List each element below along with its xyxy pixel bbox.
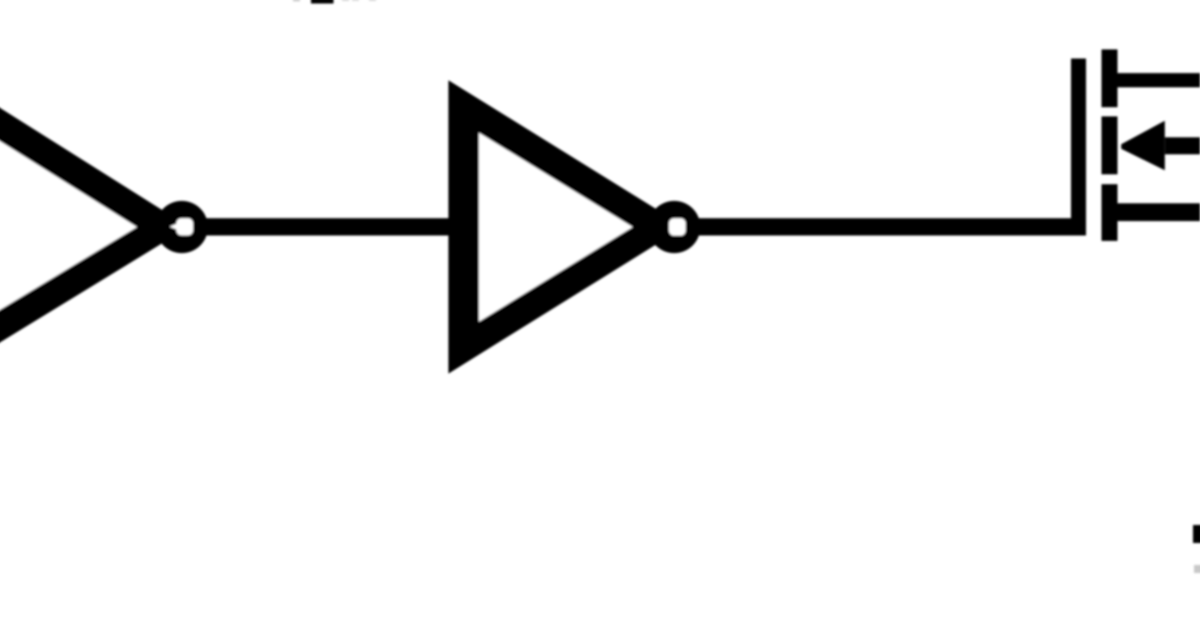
label fragment (cut off at right edge, bottom) [1193,525,1200,573]
inverter U1 (partially cut off at left edge) [0,80,189,369]
inverter U2 [448,80,684,373]
wire: U1 output to U2 input [206,218,449,235]
transistor M1 drain lead [1116,73,1200,87]
transistor M1 channel segment (bottom) [1102,184,1118,241]
wire: U2 output to M1 gate [698,218,1086,235]
transistor M1 body arrow head [1121,121,1165,170]
transistor M1 body lead [1165,137,1200,154]
transistor M1 channel segment (top) [1102,49,1118,107]
inverter U2 output bubble [648,201,700,253]
inverter U1 output bubble [156,201,208,253]
transistor M1 channel segment (middle) [1102,116,1118,174]
transistor M1 gate bar [1071,59,1086,236]
label fragment (cut off at top edge) [293,0,376,4]
transistor M1 source lead [1116,203,1200,221]
